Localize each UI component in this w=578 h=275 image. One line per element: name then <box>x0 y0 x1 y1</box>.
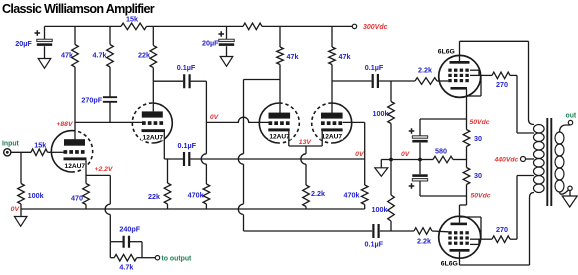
svg-text:270pF: 270pF <box>81 96 102 105</box>
resistor 47k (V1 plate load) <box>61 26 78 67</box>
wire feedback to network <box>109 215 111 242</box>
svg-text:30: 30 <box>474 171 482 180</box>
wire cathode bias top <box>420 118 467 120</box>
svg-text:470k: 470k <box>188 191 204 200</box>
resistor 22k (V2 plate load) <box>138 26 157 67</box>
tube V3 12AU7 envelope <box>259 103 299 143</box>
resistor 47k (V3 plate load) <box>277 26 299 64</box>
tube 6L6G #2 screen grid g2 <box>448 242 469 245</box>
junction grid-leak bus <box>389 158 393 162</box>
svg-text:15k: 15k <box>126 15 138 24</box>
svg-text:30: 30 <box>474 134 482 143</box>
tube V2 plate <box>142 111 163 117</box>
svg-text:0.1µF: 0.1µF <box>365 240 384 249</box>
tube V2 grid <box>142 121 163 125</box>
wire to 6L6 #1 grid <box>437 80 448 82</box>
svg-text:out: out <box>566 113 577 120</box>
tube V2 label 12AU7 <box>141 133 165 141</box>
node 0V (input bus) <box>11 206 21 213</box>
wire V4 plate lead <box>331 65 333 114</box>
wire upper plate to primary <box>460 41 535 124</box>
svg-text:4.7k: 4.7k <box>119 263 133 272</box>
capacitor 0.1uF (lower coupling) <box>178 141 197 166</box>
svg-text:0V: 0V <box>355 151 365 158</box>
wire 6L6 #1 cathode <box>466 90 468 130</box>
wire V3 grid feed line <box>205 81 207 154</box>
ground below C1 <box>38 46 51 68</box>
tube 6L6G #1 beam plates g3 <box>448 74 469 77</box>
wire V3 plate lead <box>279 65 281 114</box>
svg-text:300Vdc: 300Vdc <box>363 24 388 31</box>
svg-text:15k: 15k <box>34 141 46 150</box>
node 0V (bias caps) <box>401 151 411 158</box>
wire to 6L6 #2 grid <box>432 230 448 233</box>
capacitor 270pF <box>81 67 117 122</box>
svg-text:Input: Input <box>2 141 20 148</box>
node secondary ground terminal <box>568 186 572 190</box>
wire B+ rail segment 2 <box>147 25 244 27</box>
tube V4 cathode <box>321 128 342 131</box>
svg-text:47k: 47k <box>339 52 351 61</box>
wire V3 grid line <box>206 121 268 123</box>
wire V4 grid line <box>343 122 365 185</box>
resistor 100k (input grid leak) <box>18 152 44 209</box>
resistor 30 (upper) <box>463 130 482 147</box>
tube V3 cathode <box>268 128 289 131</box>
tube 6L6G #1 envelope <box>439 55 481 97</box>
svg-text:47k: 47k <box>61 51 73 60</box>
tube V2 12AU7 envelope <box>132 103 172 143</box>
tube 6L6G #1 label <box>438 49 455 56</box>
tube V3 label 12AU7 <box>268 132 291 140</box>
svg-text:470: 470 <box>71 194 83 203</box>
ground at grid-leak bus <box>375 160 391 177</box>
node 13V <box>299 139 313 146</box>
svg-text:100k: 100k <box>28 191 44 200</box>
capacitor 0.1uF (upper coupling) <box>153 63 206 88</box>
wire 6L6 #2 screen ties <box>470 239 479 244</box>
capacitor 0.1uF (to lower 6L6) <box>365 224 384 249</box>
ground at secondary <box>562 191 577 208</box>
svg-text:50Vdc: 50Vdc <box>471 193 491 200</box>
transformer core <box>547 118 551 206</box>
tube 6L6G #1 screen grid g2 <box>448 69 469 72</box>
node +88V <box>56 121 74 128</box>
wire V2 plate lead <box>152 68 154 112</box>
wire lower plate to primary <box>460 193 535 266</box>
resistor 2.2k (6L6 #1 grid stopper) <box>415 66 437 85</box>
wire common cathode drop <box>305 146 307 154</box>
wire lower coupling to grid node <box>380 230 414 232</box>
svg-text:580: 580 <box>435 147 447 156</box>
capacitor bias 20uF lower <box>409 160 428 197</box>
hop line B over 0V bus <box>238 204 243 214</box>
svg-text:6L6G: 6L6G <box>441 261 458 268</box>
resistor 4.7k (feedback) <box>110 242 142 272</box>
svg-text:0V: 0V <box>210 114 220 121</box>
wire input to 15k <box>11 151 31 153</box>
wire 15k to V1 grid <box>48 151 64 153</box>
tube 6L6G #2 label <box>441 261 458 268</box>
transformer primary winding <box>534 125 545 193</box>
hop line B over lower signal <box>238 154 243 164</box>
wire V2 cathode lead <box>164 132 183 159</box>
tube 6L6G #1 control grid g1 <box>448 79 469 82</box>
wire screen to 270 lower <box>479 238 492 240</box>
resistor 2.2k (6L6 #2 grid stopper) <box>414 228 432 246</box>
wire V4 plate tap <box>332 80 372 82</box>
svg-text:0.1µF: 0.1µF <box>178 141 197 150</box>
capacitor 240pF <box>110 225 142 248</box>
tube V4 grid <box>321 121 342 125</box>
tube V1 label 12AU7 <box>63 162 87 170</box>
tube V3 plate <box>269 113 291 119</box>
svg-text:440Vdc: 440Vdc <box>493 157 518 164</box>
tube 6L6G #2 beam plates g3 <box>448 236 469 239</box>
resistor 15k (grid stopper) <box>31 141 48 156</box>
resistor 15k (B+ rail) <box>121 15 147 30</box>
node +2.2V <box>95 166 114 173</box>
svg-text:2.2k: 2.2k <box>417 237 431 246</box>
tube 6L6G #2 envelope <box>439 216 481 258</box>
title <box>2 2 155 16</box>
resistor 2.2k (V3/V4 cathode) <box>303 185 325 209</box>
wire cathode drop lower <box>305 164 307 185</box>
wire +88V line <box>75 121 142 123</box>
resistor 270 (upper screen) <box>492 72 510 89</box>
node out terminal <box>566 113 577 125</box>
wire 6L6 #2 plate lead <box>459 252 461 265</box>
resistor 100k (6L6 #2 grid leak) <box>372 160 395 232</box>
svg-text:20µF: 20µF <box>15 39 32 48</box>
wire B+ rail segment 3 <box>262 25 352 27</box>
resistor 270 (lower screen) <box>492 225 510 243</box>
capacitor C1 20uF <box>15 26 52 48</box>
tube 6L6G #1 plate <box>450 61 470 64</box>
resistor (B+ rail, unlabeled) <box>243 23 262 30</box>
junction bias center <box>418 158 422 162</box>
resistor 470 (V1 cathode) <box>71 184 89 210</box>
tube 6L6G #2 control grid g1 <box>448 231 469 234</box>
resistor 100k (6L6 #1 grid leak) <box>373 81 395 160</box>
ground main 0V bus <box>14 209 27 226</box>
node Input terminal <box>2 141 20 156</box>
wire cathode bias bottom <box>420 195 467 197</box>
resistor 4.7k <box>93 26 114 67</box>
wire V1 plate to +88V node <box>74 67 76 139</box>
svg-text:12AU7: 12AU7 <box>65 163 86 170</box>
svg-text:6L6G: 6L6G <box>438 49 455 56</box>
wire cathode join bar <box>289 145 322 147</box>
node to-output terminal <box>142 255 192 262</box>
svg-text:+2.2V: +2.2V <box>95 166 114 173</box>
wire V3 cathode lead <box>288 131 290 146</box>
wire 30-580 junction <box>466 147 468 168</box>
svg-text:0V: 0V <box>11 206 21 213</box>
wire line B middle <box>243 164 245 204</box>
tube V1 12AU7 envelope <box>51 131 92 172</box>
svg-text:0.1µF: 0.1µF <box>365 63 384 72</box>
svg-text:470k: 470k <box>344 191 360 200</box>
wire 6L6 #1 screen ties <box>470 70 479 75</box>
wire main 0V bus <box>21 208 365 210</box>
wire line B lower <box>244 215 373 231</box>
wire coupling to grid node <box>379 80 415 82</box>
tube 6L6G #1 cathode <box>451 87 468 90</box>
svg-text:22k: 22k <box>138 51 150 60</box>
node 440Vdc terminal <box>493 157 534 164</box>
capacitor bias 20uF upper <box>409 119 428 160</box>
svg-text:2.2k: 2.2k <box>311 189 325 198</box>
hop V3 feed over lower signal <box>201 154 206 164</box>
wire lower signal line <box>190 158 364 160</box>
tube V4 12AU7 envelope <box>312 103 352 143</box>
node 300Vdc terminal <box>352 24 387 31</box>
wire 6L6 #2 beam tie to cathode <box>460 217 482 239</box>
tube V4 label 12AU7 <box>321 132 344 140</box>
svg-text:50Vdc: 50Vdc <box>470 119 490 126</box>
capacitor C2 20uF <box>202 26 234 47</box>
wire 270 to primary tap (upper) <box>510 75 534 133</box>
resistor 580 <box>420 147 467 163</box>
svg-text:100k: 100k <box>373 109 389 118</box>
wire screen to 270 <box>479 74 492 76</box>
wire line B upper <box>243 80 245 154</box>
resistor 47k (V4 plate load) <box>329 26 351 64</box>
resistor 22k (cathodyne load) <box>148 159 171 209</box>
tube 6L6G #2 plate <box>450 249 470 252</box>
svg-text:13V: 13V <box>299 139 313 146</box>
wire secondary bottom <box>560 190 569 194</box>
tube 6L6G #2 cathode <box>451 223 468 226</box>
node 50Vdc lower <box>471 193 491 200</box>
hop V3 grid line over B <box>238 117 248 122</box>
tube V1 plate <box>64 139 85 146</box>
svg-text:100k: 100k <box>372 205 388 214</box>
svg-text:20µF: 20µF <box>202 39 219 48</box>
capacitor 0.1uF (to upper 6L6) <box>365 63 384 88</box>
svg-text:22k: 22k <box>148 192 160 201</box>
svg-text:0.1µF: 0.1µF <box>177 63 196 72</box>
hop cathode drop over signal <box>301 154 306 164</box>
ground below C2 <box>220 46 233 66</box>
svg-text:12AU7: 12AU7 <box>143 135 164 142</box>
wire 470k upper lead <box>205 164 207 184</box>
tube V4 plate <box>321 113 343 119</box>
wire V3 plate tap <box>244 79 281 81</box>
svg-text:2.2k: 2.2k <box>418 66 432 75</box>
svg-text:to output: to output <box>162 255 193 262</box>
resistor 470k (V4 grid leak) <box>344 185 369 209</box>
tube V3 grid <box>269 121 290 125</box>
hop feedback over 0V bus <box>105 204 110 214</box>
wire 270 to primary tap (lower) <box>510 176 534 240</box>
tube V2 cathode <box>142 129 166 132</box>
node 0V (V4 grid) <box>355 151 365 158</box>
wire V4 cathode lead <box>321 131 323 146</box>
svg-text:47k: 47k <box>287 52 299 61</box>
svg-text:0V: 0V <box>401 151 411 158</box>
resistor 30 (lower) <box>463 168 482 185</box>
svg-text:270: 270 <box>496 80 508 89</box>
resistor 470k (V3 grid leak) <box>188 184 210 209</box>
wire V1 cathode lead <box>85 160 87 183</box>
tube V1 grid <box>64 150 85 154</box>
tube V1 cathode <box>64 157 87 160</box>
transformer secondary winding <box>555 132 564 192</box>
wire feedback branch <box>86 175 110 204</box>
svg-text:12AU7: 12AU7 <box>322 134 343 141</box>
svg-text:240pF: 240pF <box>119 225 140 234</box>
svg-text:12AU7: 12AU7 <box>269 134 290 141</box>
svg-text:+88V: +88V <box>56 121 74 128</box>
wire secondary top to out <box>560 125 571 133</box>
wire grid-leak bus to 0V caps <box>391 159 420 161</box>
svg-text:270: 270 <box>496 225 508 234</box>
wire B+ rail segment 1 <box>45 25 122 27</box>
wire 6L6 #1 plate lead <box>459 41 461 61</box>
node 50Vdc upper <box>470 119 490 126</box>
wire to 6L6 #2 cathode <box>460 185 467 223</box>
node 0V (V3 grid) <box>210 114 220 121</box>
wire 6L6 #1 beam tie to cathode <box>467 75 482 96</box>
svg-text:4.7k: 4.7k <box>93 51 107 60</box>
